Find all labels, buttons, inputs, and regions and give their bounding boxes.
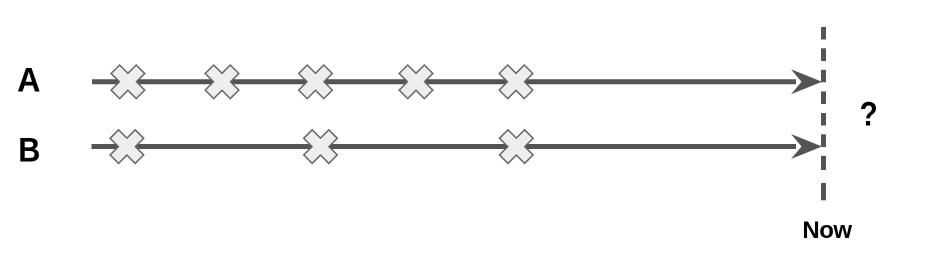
arrowhead timeline A xyxy=(791,69,822,94)
X marker A5 xyxy=(491,57,541,107)
X marker A4 xyxy=(391,57,441,107)
X marker B3 xyxy=(491,121,541,171)
svg-text:B: B xyxy=(18,131,40,169)
X marker B2 xyxy=(295,121,345,171)
X marker A2 xyxy=(197,57,247,107)
svg-text:Now: Now xyxy=(802,217,852,244)
svg-text:A: A xyxy=(17,62,40,100)
arrowhead timeline B xyxy=(791,134,822,159)
X marker A3 xyxy=(290,57,340,107)
wire: timeline B shaft xyxy=(92,144,797,149)
svg-text:?: ? xyxy=(860,95,878,133)
X marker A1 xyxy=(103,57,153,107)
X marker B1 xyxy=(102,121,152,171)
wire: timeline A shaft xyxy=(92,79,796,84)
dashed now line xyxy=(821,27,826,200)
